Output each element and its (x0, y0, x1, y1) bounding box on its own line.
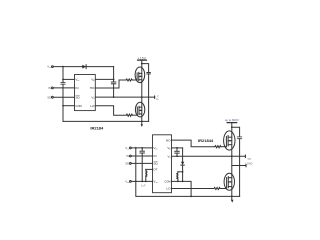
svg-text:SD: SD (75, 95, 80, 99)
svg-text:+15V: +15V (138, 56, 147, 60)
svg-text:SD: SD (125, 162, 129, 166)
svg-text:COM: COM (75, 104, 82, 108)
svg-text:SD: SD (47, 95, 51, 99)
svg-text:SD: SD (153, 162, 158, 166)
svg-text:1uF: 1uF (141, 183, 146, 187)
svg-text:IN: IN (75, 86, 78, 90)
svg-text:TO: TO (247, 157, 251, 161)
svg-text:IN: IN (48, 86, 51, 90)
svg-text:IN: IN (126, 154, 129, 158)
svg-text:LO: LO (90, 104, 95, 108)
svg-text:IN: IN (153, 154, 156, 158)
svg-text:up to 600V: up to 600V (225, 118, 239, 122)
svg-text:IR21844: IR21844 (198, 138, 214, 143)
svg-text:DT: DT (153, 168, 157, 172)
svg-text:LO: LO (166, 187, 171, 191)
svg-text:IR2184: IR2184 (90, 125, 104, 130)
svg-text:HO: HO (90, 86, 95, 90)
svg-text:HO: HO (166, 138, 171, 142)
svg-text:LOAD: LOAD (245, 161, 252, 165)
svg-text:COM: COM (164, 180, 171, 184)
